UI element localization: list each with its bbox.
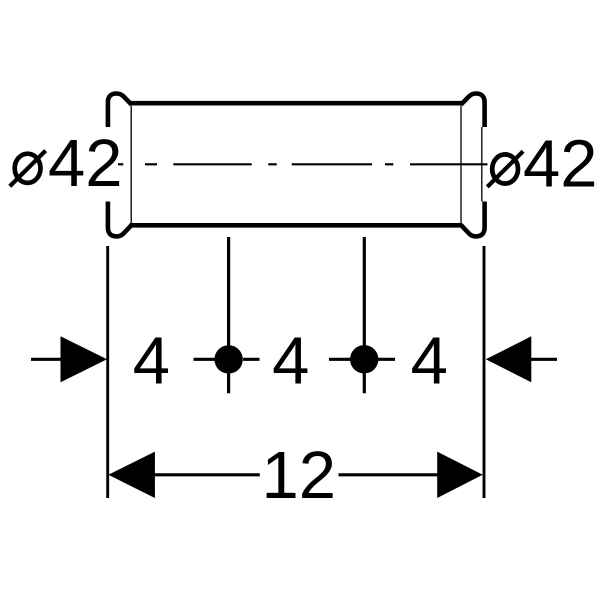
marker line 2 [363, 237, 366, 393]
arrow right (12 row) [437, 452, 483, 498]
svg-text:4: 4 [411, 323, 448, 398]
arrow left (12 row) [108, 452, 154, 498]
extension line right [483, 246, 486, 498]
coupling body bottom line [130, 223, 462, 228]
svg-text:4: 4 [272, 323, 309, 398]
svg-text:42: 42 [523, 127, 598, 202]
inner edge line left [130, 106, 132, 223]
extension line left [106, 246, 109, 498]
arrow left (4 row) [61, 336, 108, 382]
marker dot 1 [214, 345, 242, 373]
press bead top-left [108, 94, 132, 128]
press bead bottom-left [108, 202, 132, 237]
centerline dash-dot [118, 163, 488, 165]
marker line 1 [227, 237, 230, 393]
arrow right (4 row) [486, 336, 532, 382]
marker dot 2 [350, 345, 378, 373]
svg-text:12: 12 [262, 438, 337, 513]
dimension row 4-4-4 [31, 358, 557, 361]
right bead edge thin line [481, 127, 483, 202]
svg-text:42: 42 [48, 126, 123, 201]
svg-text:4: 4 [133, 323, 170, 398]
press bead bottom-right [461, 202, 485, 237]
press bead top-right [461, 94, 485, 128]
diameter symbol right [487, 151, 523, 187]
dimension row 12 [154, 473, 438, 476]
coupling body top line [130, 101, 462, 106]
inner edge line right [460, 106, 462, 223]
foot serif for digit 1 [267, 493, 294, 498]
diameter symbol left [10, 151, 46, 187]
